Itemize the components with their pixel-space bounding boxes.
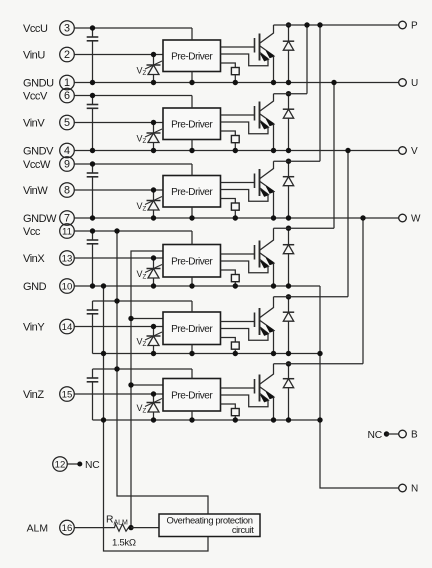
svg-text:VccW: VccW [23, 159, 51, 171]
svg-text:VinZ: VinZ [23, 389, 44, 401]
wire pre-driver to sense resistor V [221, 131, 236, 136]
pin 11 circle [60, 224, 75, 239]
wire Y emitter rail [93, 353, 321, 355]
transistor QX channel bar [259, 241, 261, 268]
junction pre-driver U gnd on rail [189, 80, 194, 85]
zener diode Vz X slash [145, 265, 162, 273]
terminal V [399, 147, 407, 155]
svg-text:NC: NC [368, 430, 383, 441]
junction CU top [90, 25, 95, 30]
junction Vcc feed at Vcc rail [114, 228, 119, 233]
capacitor CU top wire [92, 28, 94, 37]
wire QW sense-feedback to pre-driver [221, 190, 269, 202]
pin 14 circle [60, 319, 75, 334]
junction zener Y anode on rail [151, 351, 156, 356]
wire ALM input to Y pre-driver [131, 318, 163, 320]
transistor QY emitter with arrow [260, 321, 274, 331]
junction CV top [90, 93, 95, 98]
transistor QX IGBT X-phase gate lead [221, 253, 255, 255]
wire W output to Z collector vertical [362, 218, 364, 364]
transistor QW collector [260, 161, 274, 178]
wire pre-driver to sense resistor U [221, 63, 236, 68]
wire QY emitter to Y rail [273, 330, 275, 353]
junction GND feed at Z rail [101, 417, 106, 422]
wire pre-driver X bottom to rail [191, 277, 193, 286]
wire QX emitter to X rail [273, 263, 275, 286]
svg-text:9: 9 [64, 158, 70, 170]
op-amp UU pre-driver box [163, 40, 221, 72]
svg-text:6: 6 [64, 90, 70, 102]
zener diode Vz W slash [145, 197, 162, 205]
pin 8 circle [60, 183, 75, 198]
diode DW freewheel cathode wire [288, 161, 290, 177]
resistor sense shunt RV [231, 136, 239, 143]
wire Y collector line [274, 296, 349, 298]
capacitor CY plates [87, 309, 99, 311]
op-amp UW pre-driver box [163, 176, 221, 208]
transistor QY gate bar [254, 313, 256, 328]
junction U rail to X feed [331, 80, 336, 85]
svg-text:Pre-Driver: Pre-Driver [171, 390, 213, 401]
svg-text:7: 7 [64, 212, 70, 224]
op-amp UY pre-driver box [163, 312, 221, 345]
junction CX top [90, 228, 95, 233]
junction DU anode on rail [286, 80, 291, 85]
svg-text:VinY: VinY [23, 321, 45, 333]
pin 2 circle [60, 47, 75, 62]
junction DV anode on rail [286, 148, 291, 153]
diode DV cathode bar [283, 108, 294, 110]
transistor QU gate bar [254, 38, 256, 53]
diode DZ cathode bar [283, 378, 294, 380]
capacitor CZ plates [87, 377, 99, 379]
wire pre-driver to sense resistor Z [221, 404, 236, 409]
diode DX triangle [283, 245, 293, 254]
junction pre-driver X gnd on rail [189, 283, 194, 288]
wire Vcc tap to Z pre-driver [93, 368, 193, 370]
wire VinZ line [74, 393, 163, 395]
wire QV emitter to V rail [273, 124, 275, 151]
wire sense resistor Z to rail [234, 416, 236, 420]
junction pre-driver Y gnd on rail [189, 351, 194, 356]
pin 1 circle [60, 75, 75, 90]
wire Vcc rail (low side) [74, 230, 192, 232]
wire pre-driver U bottom to rail [191, 72, 193, 83]
svg-text:GNDU: GNDU [23, 77, 54, 89]
op-amp UX pre-driver box [163, 245, 221, 278]
transistor QU sense emitter arrow [260, 53, 268, 59]
wire QZ sense-feedback to pre-driver [221, 395, 269, 407]
svg-text:VinW: VinW [23, 185, 48, 197]
junction sense resistor Y on rail [233, 351, 238, 356]
transistor QZ channel bar [259, 375, 261, 402]
zener diode Vz V cathode bar [147, 132, 161, 134]
wire P to W collector vertical [319, 25, 321, 161]
zener diode Vz Y wires [153, 327, 155, 354]
junction zener U cathode on Vin [151, 52, 156, 57]
zener diode Vz W wires [153, 190, 155, 218]
svg-text:14: 14 [62, 322, 73, 333]
junction CX bottom on rail [90, 283, 95, 288]
svg-text:NC: NC [85, 460, 100, 471]
transistor QZ collector [260, 364, 274, 384]
junction ALM feed at Y input [128, 316, 133, 321]
transistor QU IGBT U-phase gate lead [221, 46, 255, 48]
svg-text:13: 13 [62, 253, 73, 264]
junction zener W anode on rail [151, 215, 156, 220]
wire Vcc into pre-driver Z top [191, 369, 193, 379]
diode DU triangle [283, 41, 293, 50]
svg-text:11: 11 [62, 226, 72, 237]
diode DV anode wire [288, 118, 290, 150]
diode DU cathode bar [283, 40, 294, 42]
junction N bus at Y rail [317, 351, 322, 356]
wire QU emitter to U rail [273, 56, 275, 83]
capacitor CX top wire [92, 231, 94, 240]
junction Vcc feed at Y tap [114, 298, 119, 303]
svg-text:B: B [411, 429, 418, 440]
wire VinY line [74, 326, 163, 328]
junction P feed V [304, 22, 309, 27]
svg-text:VinX: VinX [23, 253, 45, 265]
transistor QW sense emitter arrow [260, 188, 268, 194]
transistor QX gate bar [254, 245, 256, 260]
diode DV triangle [283, 109, 293, 118]
svg-text:U: U [411, 78, 418, 89]
diode DY cathode bar [283, 311, 294, 313]
transistor QZ gate bar [254, 379, 256, 394]
diode DX anode wire [288, 254, 290, 286]
wire QW emitter to W rail [273, 191, 275, 218]
wire Z collector line [274, 363, 364, 365]
junction DV top [286, 91, 291, 96]
resistor sense shunt RW [231, 203, 239, 210]
node pin 12 NC dot [77, 462, 82, 467]
junction DU top [286, 22, 291, 27]
op-amp overheating protection circuit box [159, 514, 260, 537]
transistor QU collector [260, 25, 274, 43]
zener diode Vz U wires [153, 55, 155, 83]
resistor sense shunt RZ [231, 409, 239, 416]
transistor QX emitter with arrow [260, 253, 274, 263]
svg-text:N: N [411, 483, 418, 494]
junction zener Y cathode on Vin [151, 324, 156, 329]
junction DZ anode on rail [286, 417, 291, 422]
wire U output to X collector vertical [333, 83, 335, 229]
transistor QW IGBT W-phase gate lead [221, 182, 255, 184]
wire VinX line [74, 257, 163, 259]
junction DW top [286, 159, 291, 164]
svg-text:8: 8 [64, 184, 70, 196]
junction CW top [90, 161, 95, 166]
capacitor CV plates [87, 104, 99, 106]
capacitor CU plates [87, 36, 99, 38]
terminal N [399, 484, 407, 492]
wire pre-driver W bottom to rail [191, 207, 193, 218]
zener diode Vz Y slash [145, 332, 162, 340]
diode DZ anode wire [288, 388, 290, 420]
wire GNDV / V output rail [74, 150, 399, 152]
wire Vcc into pre-driver X top [191, 231, 193, 245]
wire VinW line [74, 189, 163, 191]
zener diode Vz Z cathode bar [147, 402, 161, 404]
op-amp UZ pre-driver box [163, 379, 221, 412]
wire GNDW / W output rail [74, 217, 399, 219]
junction W rail to Z feed [360, 215, 365, 220]
junction zener W cathode on Vin [151, 187, 156, 192]
junction sense resistor Z on rail [233, 417, 238, 422]
wire P to V collector vertical [306, 25, 308, 94]
terminal B [399, 430, 407, 438]
pin 15 circle [60, 387, 75, 402]
transistor QY collector [260, 297, 274, 318]
zener diode Vz Z slash [145, 399, 162, 407]
zener diode Vz U triangle [148, 65, 159, 75]
diode DX cathode bar [283, 244, 294, 246]
resistor sense shunt RX [231, 275, 239, 282]
transistor QV channel bar [259, 102, 261, 129]
junction sense resistor W on rail [233, 215, 238, 220]
capacitor CW plates [87, 172, 99, 174]
capacitor CZ top wire [92, 369, 94, 378]
wire Vcc into pre-driver Y top [191, 301, 193, 312]
svg-text:15: 15 [62, 389, 73, 400]
capacitor CV bottom wire [92, 108, 94, 150]
capacitor CW bottom wire [92, 177, 94, 218]
junction DW anode on rail [286, 215, 291, 220]
diode DU anode wire [288, 50, 290, 82]
wire pre-driver to sense resistor Y [221, 338, 236, 343]
node NC-B dot [384, 431, 389, 436]
junction zener V anode on rail [151, 148, 156, 153]
junction pre-driver Z gnd on rail [189, 417, 194, 422]
diode DU freewheel cathode wire [288, 25, 290, 41]
junction QZ emitter on rail [271, 417, 276, 422]
svg-text:VccV: VccV [23, 90, 48, 102]
diode DY freewheel cathode wire [288, 297, 290, 312]
junction pre-driver W gnd on rail [189, 215, 194, 220]
capacitor CX plates [87, 239, 99, 241]
wire GND / X emitter rail [74, 285, 320, 287]
wire sense resistor V to rail [234, 143, 236, 151]
zener diode Vz X wires [153, 258, 155, 286]
svg-text:Pre-Driver: Pre-Driver [171, 324, 213, 335]
junction zener Z anode on rail [151, 417, 156, 422]
junction QX emitter on rail [271, 283, 276, 288]
junction Vcc feed at Z tap [114, 366, 119, 371]
transistor QY sense emitter arrow [260, 327, 268, 333]
junction QV emitter on rail [271, 148, 276, 153]
pin 4 circle [60, 143, 75, 158]
junction DX anode on rail [286, 283, 291, 288]
wire VccU rail [74, 27, 192, 29]
wire VccW rail [74, 163, 192, 165]
junction zener V cathode on Vin [151, 120, 156, 125]
transistor QU emitter with arrow [260, 46, 274, 56]
diode DX freewheel cathode wire [288, 228, 290, 245]
zener diode Vz V slash [145, 129, 162, 137]
wire X collector line [274, 227, 335, 229]
wire ALM pin to resistor [74, 527, 114, 529]
terminal W [399, 214, 407, 222]
junction DZ top [286, 361, 291, 366]
wire pre-driver to sense resistor W [221, 199, 236, 204]
capacitor CX bottom wire [92, 244, 94, 286]
zener diode Vz Y cathode bar [147, 335, 161, 337]
svg-text:16: 16 [62, 523, 73, 534]
wire sense resistor X to rail [234, 282, 236, 286]
wire pre-driver Z bottom to rail [191, 411, 193, 420]
junction QU emitter on rail [271, 80, 276, 85]
junction CU bottom on rail [90, 80, 95, 85]
transistor QY IGBT Y-phase gate lead [221, 321, 255, 323]
wire GNDU / U output rail [74, 82, 399, 84]
wire Vcc into pre-driver U top [191, 28, 193, 40]
junction ALM after resistor [128, 525, 133, 530]
svg-text:Pre-Driver: Pre-Driver [171, 51, 213, 62]
transistor QW channel bar [259, 169, 261, 196]
transistor QW emitter with arrow [260, 182, 274, 192]
junction ALM feed at Z input [128, 382, 133, 387]
diode DW anode wire [288, 186, 290, 218]
zener diode Vz W cathode bar [147, 200, 161, 202]
svg-text:Pre-Driver: Pre-Driver [171, 119, 213, 130]
svg-text:GNDV: GNDV [23, 145, 54, 157]
zener diode Vz V triangle [148, 133, 159, 143]
svg-text:1.5kΩ: 1.5kΩ [112, 537, 136, 548]
svg-text:GND: GND [23, 281, 47, 293]
wire QX sense-feedback to pre-driver [221, 261, 269, 273]
wire ALM feed vertical [131, 251, 163, 528]
junction zener U anode on rail [151, 80, 156, 85]
wire Z emitter rail [93, 419, 321, 421]
junction V rail to Y feed [345, 148, 350, 153]
svg-text:10: 10 [62, 281, 73, 292]
pin 3 circle [60, 21, 75, 36]
zener diode Vz W triangle [148, 201, 159, 211]
junction DY anode on rail [286, 351, 291, 356]
wire V collector line [274, 93, 308, 95]
svg-text:ALM: ALM [27, 523, 48, 534]
resistor sense shunt RY [231, 342, 239, 349]
transistor QV emitter with arrow [260, 114, 274, 124]
junction sense resistor X on rail [233, 283, 238, 288]
svg-text:Pre-Driver: Pre-Driver [171, 187, 213, 198]
capacitor CW top wire [92, 164, 94, 173]
pin 5 circle [60, 115, 75, 130]
resistor RALM zigzag [114, 524, 130, 531]
zener diode Vz Z triangle [148, 403, 159, 413]
transistor QZ sense emitter arrow [260, 394, 268, 400]
capacitor CV top wire [92, 96, 94, 105]
zener diode Vz Y triangle [148, 336, 159, 346]
junction QW emitter on rail [271, 215, 276, 220]
junction DY top [286, 294, 291, 299]
wire X rail down to N [320, 286, 399, 488]
svg-text:4: 4 [64, 145, 70, 157]
pin 10 circle [60, 279, 75, 294]
wire pre-driver V bottom to rail [191, 140, 193, 151]
wire ALM input to Z pre-driver [131, 384, 163, 386]
diode DV freewheel cathode wire [288, 94, 290, 110]
svg-text:5: 5 [64, 117, 70, 129]
junction P feed W [317, 22, 322, 27]
junction zener Z cathode on Vin [151, 391, 156, 396]
svg-text:VccU: VccU [23, 23, 48, 35]
wire V output to Y collector vertical [347, 151, 349, 297]
junction GND feed at Y rail [101, 351, 106, 356]
transistor QY channel bar [259, 308, 261, 335]
transistor QU channel bar [259, 34, 261, 61]
junction zener X anode on rail [151, 283, 156, 288]
wire VinU line [74, 54, 163, 56]
zener diode Vz U cathode bar [147, 64, 161, 66]
transistor QX sense emitter arrow [260, 260, 268, 266]
junction N bus at Z rail [317, 417, 322, 422]
wire sense resistor U to rail [234, 75, 236, 83]
capacitor CZ bottom wire [92, 382, 94, 420]
wire VccV rail [74, 95, 192, 97]
transistor QV gate bar [254, 106, 256, 121]
diode DZ freewheel cathode wire [288, 364, 290, 379]
zener diode Vz X cathode bar [147, 268, 161, 270]
wire QZ emitter to Z rail [273, 397, 275, 420]
svg-text:1: 1 [64, 77, 70, 89]
transistor QW gate bar [254, 174, 256, 189]
junction QY emitter on rail [271, 351, 276, 356]
wire pre-driver Y bottom to rail [191, 345, 193, 354]
wire pin 12 stub [68, 463, 79, 465]
junction GND feed at X rail [101, 283, 106, 288]
wire QV sense-feedback to pre-driver [221, 122, 269, 134]
transistor QZ IGBT Z-phase gate lead [221, 387, 255, 389]
svg-text:Vcc: Vcc [23, 226, 41, 238]
svg-text:3: 3 [64, 22, 70, 34]
wire QY sense-feedback to pre-driver [221, 329, 269, 341]
transistor QV sense emitter arrow [260, 121, 268, 127]
transistor QZ emitter with arrow [260, 387, 274, 397]
pin 12 circle [53, 457, 68, 472]
wire sense resistor Y to rail [234, 349, 236, 353]
wire GND feed vertical [104, 286, 209, 551]
pin 9 circle [60, 157, 75, 172]
diode DY triangle [283, 312, 293, 321]
wire Vcc feed vertical [117, 231, 208, 514]
terminal U [399, 79, 407, 87]
pin 16 circle [60, 520, 75, 535]
diode DW triangle [283, 177, 293, 186]
wire P rail [274, 24, 399, 26]
junction sense resistor V on rail [233, 148, 238, 153]
resistor sense shunt RU [231, 68, 239, 75]
wire sense resistor W to rail [234, 210, 236, 218]
svg-text:VinV: VinV [23, 117, 45, 129]
diode DZ triangle [283, 379, 293, 388]
capacitor CY top wire [92, 301, 94, 310]
svg-text:W: W [411, 213, 421, 224]
diode DW cathode bar [283, 176, 294, 178]
pin 6 circle [60, 88, 75, 103]
svg-text:P: P [411, 20, 418, 31]
wire QU sense-feedback to pre-driver [221, 54, 269, 66]
transistor QV collector [260, 94, 274, 111]
wire Vcc tap to Y pre-driver [93, 300, 193, 302]
pin 7 circle [60, 211, 75, 226]
wire W collector line [274, 160, 321, 162]
transistor QX collector [260, 228, 274, 250]
zener diode Vz V wires [153, 123, 155, 151]
svg-text:circuit: circuit [232, 524, 254, 535]
